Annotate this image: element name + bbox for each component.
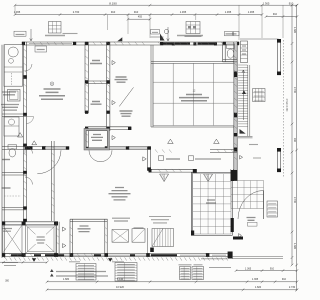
yoshitsu door triangles [63,227,66,231]
toilet bottom wall y173 [2,173,27,175]
caption tray box 1 [159,156,164,161]
hall west wall x53 [52,141,55,221]
kitchen upper cabinet dashed [11,73,13,86]
svg-text:1.365: 1.365 [293,27,296,34]
wall kitchen/laundry divider y115 [2,114,27,116]
storage2 label [91,135,103,141]
oshiire B border [26,225,57,254]
oshiire A label [2,229,12,232]
stair landing wall y137 [238,136,253,138]
eave line top right [240,38,279,40]
staircase down marker [242,90,246,94]
bottom wall window center lines [64,254,226,256]
storage room under stairs border [85,130,109,150]
marker triangle entrance [112,61,115,65]
stove caption [185,35,202,37]
lower shoe storage label [120,111,133,116]
bay east line [147,228,149,254]
porch step black bar [233,237,243,240]
window caption a [69,261,80,263]
hall north window band 2 [108,147,126,150]
meter box [132,229,145,243]
stair side note [253,157,261,159]
svg-text:2.730: 2.730 [293,87,296,94]
washroom wall dark post [25,146,33,149]
dimension leader lines [15,5,283,40]
marker triangle storage [112,101,115,105]
note lines with triangles [50,269,108,277]
sliding door mark pair 1 [160,174,169,182]
ldk room label block [39,82,65,99]
svg-text:455: 455 [138,16,143,19]
marker triangle hall top [117,37,122,41]
kitchen counter divider [4,66,23,68]
storage room inner rect [86,131,107,148]
washroom door arc [37,150,61,174]
yoshitsu label [78,226,91,232]
marker triangle hall east [143,157,146,161]
bottom wall corner black [228,252,233,259]
staircase up arrow [242,70,245,120]
wc toilet tank [227,44,235,48]
top door filled triangle [160,34,165,41]
caption tray box 2 [189,156,194,161]
svg-text:6.140: 6.140 [117,278,124,281]
shoe cabinet shelves [241,45,248,59]
balcony wall upper [277,39,280,75]
dimension tier2 ticks [14,13,264,16]
toilet bowl [9,149,16,157]
level marker mid [108,258,112,262]
legend table A [76,264,96,281]
washroom bottom wall y147 [2,147,46,150]
svg-text:1.365: 1.365 [180,10,187,14]
wc caption text [226,33,237,35]
level marker left [32,258,36,262]
left bottom dim line [0,261,47,263]
svg-text:910: 910 [134,10,139,14]
top wall sliding window dark segment 1 [175,42,190,44]
left exterior wall [2,45,4,258]
porch floor lines [232,256,283,258]
section marker triangle a [168,139,174,143]
top wall sliding window dark segment 2 [198,42,216,44]
svg-text:1.365: 1.365 [248,10,255,14]
toilet door arc [25,146,33,154]
wall y128 post right [128,127,131,130]
right caption table [267,201,278,217]
wall x23 posts [23,75,27,222]
svg-text:1.365: 1.365 [263,1,270,5]
marker triangle washroom b [32,141,37,145]
washroom wall window band [45,147,66,150]
corridor east wall x231 [231,169,234,181]
oshiire B label [36,234,47,244]
legend table D [192,267,204,280]
right dimension line outer [296,5,298,290]
oshiire B cross [26,225,57,254]
right dimension ticks [291,4,298,291]
bench black post [150,248,154,253]
top symbol circle [164,29,168,33]
upper shoe storage label [115,77,128,82]
section marker triangle b [214,139,220,143]
bench caption text [149,217,171,223]
closet shelf dashes [4,195,21,197]
bottom dim tier1 right [236,270,297,272]
ground hatch ticks [5,257,228,260]
wall posts x86/x108 [85,80,110,150]
kitchen counter [4,45,23,86]
legend table C header [179,264,192,266]
staircase east rail [248,65,250,137]
wall y128 [85,127,131,130]
genkan grid [193,174,231,234]
washroom label text [2,92,16,95]
right dimension line inner [291,5,293,265]
window caption b [112,261,124,263]
hall window center line [128,147,147,149]
wc south wall [223,60,238,62]
dimension line tier3 right [266,16,297,18]
yoshitsu west wall [70,219,72,253]
shoe cabinet note [242,46,246,54]
toilet tank [8,145,17,149]
svg-text:10.920: 10.920 [116,285,124,289]
hall corner wall x149 [148,147,151,171]
genkan label [206,200,216,203]
wc toilet bowl [227,49,234,58]
top wall window label right [177,35,203,37]
stove leader arrow [167,27,170,41]
stair landing post [234,133,238,136]
genkan grid border [191,172,232,235]
top wall window label [45,35,65,37]
room1 top border [151,62,234,64]
oshiire east wall [57,222,60,254]
hall south wall y170 [149,169,193,172]
closet door arc [25,177,33,185]
caption marker right [240,155,243,159]
bench mark text [209,267,231,269]
room1 grid [153,63,234,125]
entrance east wall x108 [107,42,110,131]
kitchen door arc [25,64,32,71]
top wall window band W1650 [29,43,72,45]
balcony wall lower caps [277,148,281,152]
bottom left small texts [2,263,18,266]
svg-text:1.365: 1.365 [225,10,232,14]
porch marker triangle [239,234,242,238]
genkan west wall post [191,231,194,236]
svg-text:2.700: 2.700 [73,10,80,14]
porch east wall post [231,218,234,232]
top exterior wall [22,42,239,45]
oshiire top posts [22,221,26,225]
dimension line tier1 total 8.190 [15,4,297,6]
svg-text:1.365: 1.365 [245,267,252,270]
right dimension rotated labels [293,27,296,250]
bottom dim labels tier2 [63,278,287,281]
bottom wall dark segs [11,254,177,256]
wc west wall [223,42,226,62]
oshiire top wall [2,222,58,225]
bottom wall posts [2,253,5,257]
room1 bottom double line [151,126,234,128]
legend table B [115,263,137,282]
oshiire A border [3,225,23,254]
hall north wall segment y147 [128,147,147,150]
stair end black triangle [240,129,246,134]
entrance door arc [238,191,264,220]
stove fixture top [186,22,200,34]
svg-text:1.365: 1.365 [252,278,259,281]
staircase treads [238,65,247,126]
yoshitsu top wall [70,219,108,221]
dimension line tier3 left [128,18,150,20]
marker triangle washroom a [18,133,23,137]
svg-text:910: 910 [273,13,278,16]
porch grid [231,181,264,209]
closet label [2,187,11,189]
bottom exterior wall [2,254,232,257]
kitchen caption box [35,46,47,52]
dimension tier1 ticks [14,4,299,7]
storage label small [91,102,102,105]
balcony wall upper caps [277,39,281,43]
stair note 5-97 [249,144,258,146]
toilet room label [2,159,10,161]
svg-text:910: 910 [111,10,116,14]
dashed eave line right [283,40,285,177]
agarikamachi caption [151,30,160,35]
unitbath note [201,258,227,260]
top wall sliding window dark segment 0 [162,42,174,44]
bottom dim tier3 [47,289,297,291]
svg-text:8.190: 8.190 [109,1,117,5]
staircase caption table [253,89,265,102]
wall y170 post [193,169,197,173]
hall label block [109,188,131,200]
svg-text:2.730: 2.730 [293,197,296,204]
hall double door arcs [89,150,112,162]
oshiire A cross [3,225,23,254]
bottom dim tier2 [47,281,297,283]
svg-text:2.730: 2.730 [289,286,296,289]
room1 west border [151,45,153,127]
balcony wall lower [277,148,280,172]
svg-text:910: 910 [293,138,296,143]
hall corner posts [147,146,151,149]
east wall posts [234,72,238,182]
genkan west wall x192 [191,172,192,235]
wall x23 [24,42,27,221]
closet bottom wall y209 [2,208,27,210]
washroom fixture [4,117,19,136]
kitchen sink circles [8,47,18,57]
wall hatches [9,42,237,257]
svg-text:1.365: 1.365 [293,243,296,250]
entrance west wall x86 [85,42,88,113]
east main wall [234,42,237,181]
svg-text:910: 910 [282,278,287,281]
svg-text:1.820: 1.820 [255,286,262,289]
svg-text:2.5x9=2.340: 2.5x9=2.340 [285,99,287,112]
entrance west wall lower [85,128,88,150]
glass screen text [112,218,130,221]
shoe cabinet [241,41,248,63]
wall y82 entrance/storage [86,81,110,84]
mb box with cross [112,230,129,243]
corridor wall y152 right [210,150,237,153]
sliding door mark pair 2 [204,174,213,182]
washbasin caption [14,31,26,36]
svg-text:910: 910 [270,267,275,270]
entrance door leaf [263,191,265,220]
dimension line tier2 [15,14,262,16]
washbasin fixture top [49,22,62,34]
washbasin caption text2 [63,33,78,35]
marker triangle storage2 [112,136,115,140]
legend table C [180,267,191,280]
wc caption boxes [225,31,233,35]
entrance diagonal [119,87,133,106]
kitchen notes text [1,105,19,111]
svg-text:1.680: 1.680 [63,278,70,281]
porch label [247,218,256,221]
room1 label block [179,90,209,101]
svg-text:910: 910 [289,1,294,5]
refrigerator [8,90,21,102]
washroom door arc small [27,117,34,124]
bottom dim labels tier3 [116,285,296,289]
yoshitsu east wall [105,219,107,253]
bench structure [152,229,174,247]
entrance room label [90,61,102,64]
east main wall fill [234,42,237,181]
top wall posts [22,42,239,46]
